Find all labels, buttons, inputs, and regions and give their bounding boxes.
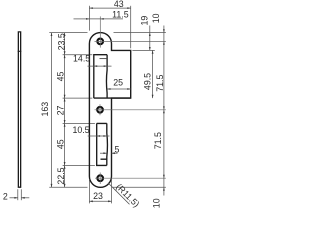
svg-text:5: 5	[114, 145, 119, 155]
leader (R11.5)	[108, 183, 130, 205]
svg-text:25: 25	[113, 78, 123, 88]
svg-text:43: 43	[114, 0, 124, 9]
holes	[97, 39, 103, 181]
svg-text:163: 163	[40, 102, 50, 117]
centerlines	[95, 16, 166, 184]
side view plate bar	[18, 32, 22, 187]
svg-text:71.5: 71.5	[153, 132, 163, 149]
dimension 11.5	[74, 18, 90, 20]
dimension 2 (thickness)	[10, 189, 30, 200]
dimension 163	[49, 33, 87, 188]
dimension 25	[107, 88, 131, 90]
svg-text:14.5: 14.5	[73, 54, 90, 64]
bottom right extension plate bottom	[113, 186, 166, 188]
front view outline	[89, 33, 130, 188]
svg-text:22.5: 22.5	[56, 167, 66, 184]
right chain 10/71.5/71.5/10	[163, 26, 165, 196]
right top extensions	[114, 33, 166, 51]
svg-text:10: 10	[152, 198, 162, 208]
dimension 43	[89, 6, 130, 49]
svg-text:71.5: 71.5	[155, 75, 165, 92]
shared bottom edge cutout+lip	[94, 97, 131, 99]
upper cutout (latch)	[94, 55, 107, 98]
svg-text:10.5: 10.5	[72, 125, 89, 135]
svg-text:2: 2	[3, 192, 8, 202]
svg-text:27: 27	[55, 106, 65, 116]
svg-text:49.5: 49.5	[143, 73, 153, 90]
dimension 5	[100, 152, 118, 154]
dimension 19	[149, 26, 151, 51]
chain dimension line (23.5 45 27 45 22.5)	[63, 33, 95, 188]
svg-text:23.5: 23.5	[56, 33, 66, 50]
lower cutout (deadbolt)	[97, 123, 108, 165]
svg-text:11.5: 11.5	[112, 10, 129, 20]
svg-text:10: 10	[151, 13, 161, 23]
svg-text:45: 45	[56, 139, 66, 149]
dimension 10.5	[88, 135, 110, 137]
dimension 49.5	[152, 50, 154, 98]
svg-text:23: 23	[93, 191, 103, 201]
svg-text:45: 45	[56, 72, 66, 82]
dimension 14.5	[88, 65, 112, 67]
svg-text:19: 19	[140, 16, 150, 26]
dimension 23	[89, 179, 111, 203]
